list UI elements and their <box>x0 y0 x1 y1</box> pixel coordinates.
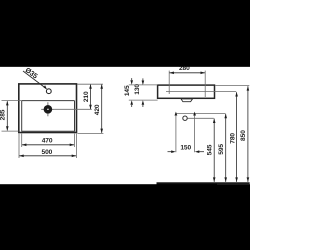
Ideal Standard logo bar <box>157 183 218 193</box>
dim 145 top arrow <box>130 80 133 85</box>
dim 420 line <box>101 85 103 133</box>
dim 150 extension left with up arrow <box>175 114 177 152</box>
dim 595 line <box>225 114 227 182</box>
basin profile rectangle (side view) <box>158 85 215 98</box>
drain cross tick vertical <box>47 102 49 116</box>
bottom extension line for 420 <box>78 132 104 134</box>
dim 285 line <box>6 101 8 130</box>
dim 500 line <box>19 155 76 157</box>
dim 285 extension bottom <box>2 130 19 132</box>
waste pipe circle <box>183 116 187 120</box>
transparent margin band top (black in raw RGB) <box>0 0 250 67</box>
svg-text:500: 500 <box>42 149 53 156</box>
dim 500 extension right <box>75 134 77 158</box>
dim 150 right outside arrow <box>198 151 204 153</box>
reference line 595 level <box>176 113 226 115</box>
dim 500 extension left <box>18 134 20 158</box>
node side-dimensions <box>124 65 249 182</box>
top extension line for 145/130 <box>129 84 158 86</box>
dim 280 line <box>170 72 205 74</box>
dim 850 line <box>247 86 249 182</box>
basin inner rim line bottom <box>22 130 75 132</box>
drain extension line to 210 dim <box>55 108 92 110</box>
dim 280 extension left <box>168 71 170 94</box>
node plan-dimensions <box>0 84 103 158</box>
dim 145 bottom arrow <box>130 100 133 105</box>
dim 545 line <box>213 119 215 182</box>
pipe axis line to 545 dim <box>188 117 214 119</box>
drain white center <box>47 109 48 110</box>
dim 470 extension right <box>73 134 75 147</box>
basin inner rim line horizontal <box>22 100 75 102</box>
dim 470 line <box>22 144 74 146</box>
svg-text:850: 850 <box>240 130 247 141</box>
drain black circle <box>44 105 53 114</box>
dim 780 line <box>236 92 238 182</box>
top extension line for 210/420 <box>77 83 103 85</box>
top extension line for 850 <box>215 84 249 86</box>
basin outer rectangle (plan view) <box>19 84 77 133</box>
svg-text:145: 145 <box>124 85 131 96</box>
svg-text:420: 420 <box>94 104 101 115</box>
dim 150 left outside arrow <box>168 151 173 153</box>
basin inner rim line left <box>21 101 23 132</box>
svg-text:470: 470 <box>42 138 53 145</box>
svg-text:210: 210 <box>83 91 90 102</box>
floor line <box>157 182 250 184</box>
dim 130 bottom arrow <box>142 100 145 105</box>
node side-view <box>157 85 250 193</box>
node plan-view <box>19 66 92 132</box>
basin inner rim line right <box>74 101 76 132</box>
svg-text:595: 595 <box>218 144 225 155</box>
drain boss under basin <box>181 99 193 102</box>
technical drawing root <box>0 65 250 193</box>
dim 150 extension right with up arrow <box>194 114 196 152</box>
basin profile inner line <box>166 91 236 93</box>
drain cross tick horizontal <box>41 108 54 110</box>
dim 210 line <box>90 85 92 109</box>
faucet hole <box>46 89 51 94</box>
svg-text:130: 130 <box>134 84 141 95</box>
svg-text:285: 285 <box>0 109 7 120</box>
svg-text:545: 545 <box>206 144 213 155</box>
dim 130 top arrow <box>142 81 145 86</box>
svg-text:150: 150 <box>180 144 191 151</box>
transparent margin band bottom (black in raw RGB) <box>0 184 250 250</box>
bottom extension line for 145/130 <box>129 99 158 101</box>
svg-text:780: 780 <box>229 133 236 144</box>
dim 285 extension top <box>2 100 22 102</box>
dim 280 extension right <box>204 71 206 97</box>
leader arrow to faucet hole <box>23 71 46 89</box>
dim 470 extension left <box>21 134 23 147</box>
